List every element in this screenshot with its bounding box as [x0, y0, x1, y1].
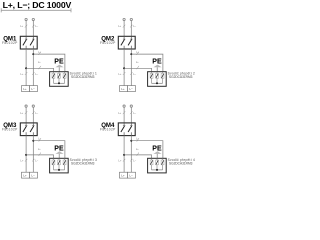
junction L+ tap (QM1)	[25, 67, 27, 69]
wire L- tap to arrester (QM4)	[131, 141, 163, 159]
wire L+ drop to QM2	[123, 21, 125, 37]
junction L- tap (QM1)	[32, 53, 34, 55]
wire arrester bottom bus (QM2)	[152, 82, 163, 84]
arrester element 2 (QM3)	[58, 158, 61, 170]
svg-text:L+: L+	[121, 174, 125, 178]
node L+ top connector (QM4)	[123, 105, 125, 107]
junction arrester bus (QM1)	[58, 82, 60, 84]
tick + label L- (top, QM2)	[130, 24, 137, 28]
wire L+ tap to arrester (QM3)	[26, 155, 53, 158]
junction arrester bus (QM2)	[156, 82, 158, 84]
terminal L- (QM1)	[30, 86, 38, 92]
svg-text:L+: L+	[118, 159, 121, 163]
junction L+ tap (QM3)	[25, 154, 27, 156]
switch QM3 pole 1	[23, 123, 28, 136]
wire PE to arrester (QM1)	[58, 67, 60, 73]
arrester element 3 (QM4)	[161, 158, 164, 170]
wire L+ below QM1	[25, 49, 27, 86]
tick + label L+ (top, QM3)	[20, 111, 27, 115]
svg-text:L+: L+	[118, 72, 121, 76]
switch QM4 pole 1	[121, 123, 126, 136]
bus extent line under title	[1, 8, 71, 12]
junction arrester bus (QM3)	[58, 169, 60, 171]
arrester element 3 (QM1)	[63, 72, 66, 84]
svg-text:L−: L−	[129, 174, 133, 178]
svg-text:L+: L+	[23, 87, 27, 91]
wire L- below QM2	[130, 49, 132, 86]
terminal L- (QM2)	[128, 86, 136, 92]
tick + label on L+ tap (QM2)	[136, 61, 139, 69]
tick + label on L+ tap (QM1)	[38, 61, 41, 69]
svg-text:L+: L+	[23, 174, 27, 178]
surge arrester F4 box (QM4)	[148, 158, 167, 173]
svg-text:PE: PE	[152, 59, 162, 66]
tick + label L- (bottom, QM3)	[32, 159, 39, 163]
wire L- drop to QM4	[130, 107, 132, 123]
svg-text:L+: L+	[118, 111, 121, 115]
svg-text:L+, L−; DC 1000V: L+, L−; DC 1000V	[3, 0, 72, 10]
svg-text:L−: L−	[129, 87, 133, 91]
terminal L+ (QM3)	[22, 172, 30, 178]
node L- top connector (QM3)	[32, 105, 34, 107]
tick + label on L+ tap (QM3)	[38, 148, 41, 156]
tick + label on L- tap (QM1)	[38, 51, 41, 55]
wire PE to arrester (QM2)	[156, 67, 158, 73]
svg-text:L+: L+	[20, 72, 23, 76]
arrester element 1 (QM4)	[150, 158, 153, 170]
wire L- tap to arrester (QM3)	[33, 141, 65, 159]
arrester element 1 (QM1)	[52, 72, 55, 84]
junction L- tap (QM3)	[32, 140, 34, 142]
tick + label L- (bottom, QM2)	[130, 72, 137, 76]
wire L+ drop to QM3	[25, 107, 27, 123]
wire L- tap to arrester (QM2)	[131, 54, 163, 72]
wire L- drop to QM3	[32, 107, 34, 123]
svg-text:L−: L−	[133, 159, 136, 163]
terminal L- (QM3)	[30, 172, 38, 178]
terminal L- (QM4)	[128, 172, 136, 178]
node L- top connector (QM1)	[32, 18, 34, 20]
svg-text:L−: L−	[35, 159, 38, 163]
arrester element 2 (QM2)	[156, 72, 159, 84]
disconnector switch QM3 (2-pole)	[20, 123, 37, 136]
switch QM1 pole 1	[23, 36, 28, 49]
svg-text:L−: L−	[133, 24, 136, 28]
wire L+ tap to arrester (QM2)	[124, 68, 151, 71]
svg-text:L−: L−	[31, 174, 35, 178]
arrester element 3 (QM3)	[63, 158, 66, 170]
terminal L+ (QM1)	[22, 86, 30, 92]
wire L+ drop to QM1	[25, 21, 27, 37]
svg-text:L−: L−	[35, 72, 38, 76]
disconnector switch QM1 (2-pole)	[20, 36, 37, 49]
terminal L+ (QM4)	[120, 172, 128, 178]
junction L- tap (QM4)	[130, 140, 132, 142]
terminal L+ (QM2)	[120, 86, 128, 92]
arrester element 2 (QM1)	[58, 72, 61, 84]
PE rail symbol (QM3)	[55, 151, 63, 154]
svg-text:L+: L+	[118, 24, 121, 28]
svg-text:PE: PE	[54, 145, 64, 152]
junction L+ tap (QM2)	[123, 67, 125, 69]
svg-text:F80102P: F80102P	[2, 128, 18, 132]
wire L- drop to QM1	[32, 21, 34, 37]
tick + label L+ (top, QM2)	[118, 24, 125, 28]
switch QM2 pole 1	[121, 36, 126, 49]
wire L+ drop to QM4	[123, 107, 125, 123]
switch QM1 pole 2	[30, 36, 34, 49]
svg-text:PE: PE	[152, 145, 162, 152]
wire arrester bottom bus (QM1)	[54, 82, 65, 84]
wire L+ tap to arrester (QM4)	[124, 155, 151, 158]
surge arrester F1 box (QM1)	[50, 72, 69, 87]
arrester element 3 (QM2)	[161, 72, 164, 84]
wire PE to arrester (QM4)	[156, 154, 158, 160]
arrester element 2 (QM4)	[156, 158, 159, 170]
wire L- below QM4	[130, 136, 132, 173]
svg-text:L+: L+	[20, 24, 23, 28]
wire L+ below QM2	[123, 49, 125, 86]
node L+ top connector (QM3)	[25, 105, 27, 107]
node L- top connector (QM4)	[130, 105, 132, 107]
arrester element 1 (QM3)	[52, 158, 55, 170]
svg-text:L−: L−	[31, 87, 35, 91]
surge arrester F3 box (QM3)	[50, 158, 69, 173]
tick + label L- (bottom, QM4)	[130, 159, 137, 163]
disconnector switch QM4 (2-pole)	[118, 123, 135, 136]
wire L+ below QM4	[123, 136, 125, 173]
tick + label L- (top, QM4)	[130, 111, 137, 115]
node L+ top connector (QM1)	[25, 18, 27, 20]
PE rail symbol (QM2)	[153, 65, 161, 68]
svg-text:SG2DCA31RM3: SG2DCA31RM3	[71, 162, 95, 166]
tick + label L- (top, QM3)	[32, 111, 39, 115]
wire arrester bottom bus (QM4)	[152, 169, 163, 171]
svg-text:F80102P: F80102P	[100, 128, 116, 132]
switch QM2 pole 2	[128, 36, 133, 49]
wire arrester bottom bus (QM3)	[54, 169, 65, 171]
wire L- below QM3	[32, 136, 34, 173]
PE rail symbol (QM4)	[153, 151, 161, 154]
svg-text:F80102P: F80102P	[100, 41, 116, 45]
PE rail symbol (QM1)	[55, 65, 63, 68]
wire PE to arrester (QM3)	[58, 154, 60, 160]
svg-text:F80102P: F80102P	[2, 41, 18, 45]
svg-text:SG2DCA31RM3: SG2DCA31RM3	[169, 162, 193, 166]
tick + label L- (bottom, QM1)	[32, 72, 39, 76]
wire L+ below QM3	[25, 136, 27, 173]
wire L- drop to QM2	[130, 21, 132, 37]
svg-text:SG2DCA31RM3: SG2DCA31RM3	[71, 75, 95, 79]
switch QM3 pole 2	[30, 123, 34, 136]
tick + label L+ (bottom, QM1)	[20, 72, 27, 76]
junction arrester bus (QM4)	[156, 169, 158, 171]
tick + label L+ (top, QM1)	[20, 24, 27, 28]
tick + label L- (top, QM1)	[32, 24, 39, 28]
node L+ top connector (QM2)	[123, 18, 125, 20]
svg-text:L−: L−	[133, 111, 136, 115]
node L- top connector (QM2)	[130, 18, 132, 20]
svg-text:L+: L+	[20, 111, 23, 115]
tick + label on L- tap (QM3)	[38, 137, 41, 141]
tick + label on L+ tap (QM4)	[136, 148, 139, 156]
svg-text:L−: L−	[35, 24, 38, 28]
tick + label L+ (top, QM4)	[118, 111, 125, 115]
disconnector switch QM2 (2-pole)	[118, 36, 135, 49]
svg-text:L+: L+	[121, 87, 125, 91]
tick + label L+ (bottom, QM4)	[118, 159, 125, 163]
svg-text:L−: L−	[35, 111, 38, 115]
wire L- below QM1	[32, 49, 34, 86]
switch QM4 pole 2	[128, 123, 133, 136]
tick + label on L- tap (QM2)	[136, 51, 139, 55]
tick + label on L- tap (QM4)	[136, 137, 139, 141]
svg-text:PE: PE	[54, 59, 64, 66]
arrester element 1 (QM2)	[150, 72, 153, 84]
surge arrester F2 box (QM2)	[148, 72, 167, 87]
junction L+ tap (QM4)	[123, 154, 125, 156]
svg-text:L+: L+	[20, 159, 23, 163]
tick + label L+ (bottom, QM3)	[20, 159, 27, 163]
wire L+ tap to arrester (QM1)	[26, 68, 53, 71]
wire L- tap to arrester (QM1)	[33, 54, 65, 72]
junction L- tap (QM2)	[130, 53, 132, 55]
svg-text:SG2DCA31RM3: SG2DCA31RM3	[169, 75, 193, 79]
tick + label L+ (bottom, QM2)	[118, 72, 125, 76]
svg-text:L−: L−	[133, 72, 136, 76]
